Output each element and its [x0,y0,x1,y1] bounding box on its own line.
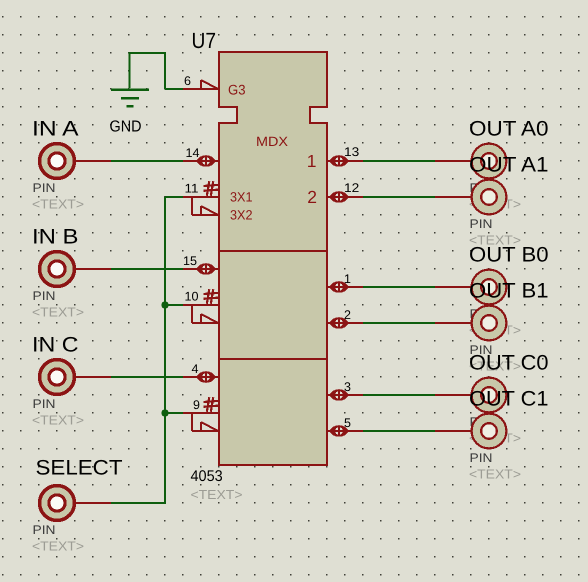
svg-text:3: 3 [344,380,351,394]
svg-text:13: 13 [344,145,359,159]
svg-text:PIN: PIN [470,451,493,465]
svg-text:1: 1 [307,151,317,171]
svg-text:11: 11 [185,182,199,196]
svg-text:2: 2 [344,308,351,322]
svg-text:3X1: 3X1 [230,190,253,205]
svg-text:<TEXT>: <TEXT> [32,413,84,428]
svg-text:<TEXT>: <TEXT> [32,197,84,212]
svg-text:PIN: PIN [33,289,56,303]
svg-text:4: 4 [192,362,199,376]
svg-text:MDX: MDX [256,134,288,149]
svg-text:10: 10 [185,290,199,304]
svg-text:OUT B0: OUT B0 [469,244,549,267]
svg-text:OUT A1: OUT A1 [469,154,549,177]
svg-text:9: 9 [193,398,200,412]
svg-text:1: 1 [344,272,351,286]
svg-text:PIN: PIN [33,181,56,195]
svg-text:15: 15 [183,254,197,268]
svg-text:IN A: IN A [32,118,79,141]
svg-text:OUT C0: OUT C0 [469,352,549,375]
svg-text:<TEXT>: <TEXT> [191,487,243,502]
svg-text:IN B: IN B [32,226,79,249]
svg-text:IN C: IN C [32,334,79,357]
svg-text:PIN: PIN [470,217,493,231]
svg-text:SELECT: SELECT [36,457,123,480]
svg-text:<TEXT>: <TEXT> [469,467,521,482]
svg-text:GND: GND [110,119,142,136]
svg-text:OUT C1: OUT C1 [469,388,549,411]
svg-text:14: 14 [186,146,200,160]
svg-text:G3: G3 [228,82,246,98]
svg-text:PIN: PIN [33,397,56,411]
svg-text:3X2: 3X2 [230,208,253,223]
svg-text:2: 2 [307,187,317,207]
svg-text:12: 12 [344,181,359,195]
svg-text:U7: U7 [192,28,217,53]
svg-text:5: 5 [344,416,351,430]
svg-text:<TEXT>: <TEXT> [32,305,84,320]
svg-text:OUT A0: OUT A0 [469,118,549,141]
svg-text:<TEXT>: <TEXT> [32,539,84,554]
svg-text:PIN: PIN [33,523,56,537]
svg-text:OUT B1: OUT B1 [469,280,549,303]
svg-text:6: 6 [184,74,191,88]
svg-text:4053: 4053 [191,468,223,485]
